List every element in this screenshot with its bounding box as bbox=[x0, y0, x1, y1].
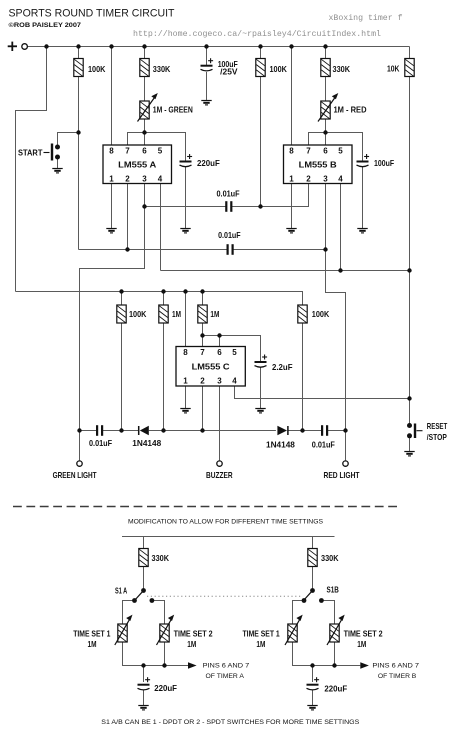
capacitor 220uF mod A bbox=[138, 677, 178, 693]
svg-text:PINS 6 AND 7: PINS 6 AND 7 bbox=[203, 662, 250, 669]
wire row2 output B to trigger A bbox=[79, 249, 228, 251]
potentiometer 1M GREEN bbox=[138, 93, 193, 122]
svg-text:1N4148: 1N4148 bbox=[132, 439, 161, 448]
svg-text:8: 8 bbox=[183, 348, 188, 357]
svg-text:SPORTS ROUND TIMER CIRCUIT: SPORTS ROUND TIMER CIRCUIT bbox=[9, 8, 176, 20]
resistor 330K A bbox=[140, 59, 149, 77]
wire pin4B bbox=[340, 184, 342, 271]
svg-text:1: 1 bbox=[183, 377, 188, 386]
svg-text:3: 3 bbox=[142, 175, 147, 184]
separator dashed line bbox=[13, 506, 401, 508]
junction light row red bbox=[343, 428, 347, 432]
svg-text:330K: 330K bbox=[152, 554, 170, 563]
wire S1B right stub bbox=[321, 601, 334, 625]
wire 330K-mod-B column bbox=[312, 537, 314, 549]
wire pin2C bbox=[202, 386, 204, 431]
svg-text:TIME SET 1: TIME SET 1 bbox=[243, 630, 281, 639]
svg-text:0.01uF: 0.01uF bbox=[217, 189, 240, 198]
arrow pins timer A bbox=[188, 662, 197, 668]
junction light row 100K right bbox=[300, 428, 304, 432]
wire 220uF modA bbox=[143, 666, 145, 683]
wire 10K column bbox=[409, 47, 411, 59]
junction pot A bbox=[142, 130, 146, 134]
svg-text:0.01uF: 0.01uF bbox=[89, 439, 112, 448]
svg-text:1M: 1M bbox=[256, 640, 265, 649]
ground 220uF A bbox=[180, 229, 190, 233]
wire V+ left branch bbox=[16, 47, 47, 292]
svg-text:TIME SET 2: TIME SET 2 bbox=[344, 630, 383, 639]
lamp GREEN LIGHT bbox=[77, 461, 82, 466]
wire bottom line A bbox=[123, 642, 189, 666]
capacitor 0.01uF row1 bbox=[217, 189, 240, 212]
junction row1 100K-B bbox=[258, 204, 262, 208]
capacitor 0.01uF red bbox=[312, 425, 335, 449]
wire reset switch ground bbox=[409, 436, 411, 452]
svg-text:LM555 A: LM555 A bbox=[118, 160, 156, 169]
svg-text:3: 3 bbox=[323, 175, 328, 184]
ground 220uF mod B bbox=[307, 706, 317, 710]
junction row2 pin2A bbox=[125, 247, 129, 251]
svg-text:4: 4 bbox=[158, 175, 163, 184]
svg-text:1M: 1M bbox=[88, 640, 97, 649]
svg-text:100K: 100K bbox=[270, 65, 287, 74]
wire row3 reset bus bbox=[161, 270, 410, 272]
ground for START bbox=[52, 169, 62, 173]
wire 100K-s2 column bbox=[121, 292, 123, 306]
svg-text:6: 6 bbox=[142, 146, 147, 155]
svg-text:RED LIGHT: RED LIGHT bbox=[324, 471, 360, 480]
wire start bottom contact to ground bbox=[57, 157, 59, 169]
svg-text:2: 2 bbox=[125, 175, 130, 184]
svg-text:0.01uF: 0.01uF bbox=[312, 440, 335, 449]
svg-text:OF TIMER A: OF TIMER A bbox=[206, 673, 245, 680]
switch S1B bbox=[302, 586, 339, 603]
junction 220uF modB bbox=[310, 663, 314, 667]
wire top V+ rail bbox=[28, 46, 410, 48]
svg-text:TIME SET 1: TIME SET 1 bbox=[73, 630, 111, 639]
svg-text:http://home.cogeco.ca/~rpaisle: http://home.cogeco.ca/~rpaisley4/Circuit… bbox=[133, 29, 381, 39]
wire 330K-A chain bbox=[144, 47, 146, 59]
wire S1B left stub bbox=[293, 601, 305, 625]
potentiometer TIME SET 1 A bbox=[73, 615, 132, 649]
capacitor 2.2uF bbox=[255, 355, 293, 373]
lamp RED LIGHT bbox=[343, 461, 348, 466]
wire 330K-B chain bbox=[325, 47, 327, 59]
wire 100uF25V column bbox=[206, 47, 208, 66]
battery terminal circle bbox=[22, 44, 28, 50]
wire pin1C ground bbox=[185, 386, 187, 409]
wire pin8A column bbox=[111, 47, 113, 146]
arrow pins timer B bbox=[360, 662, 369, 668]
svg-text:GREEN LIGHT: GREEN LIGHT bbox=[53, 471, 97, 480]
junction pin7C bbox=[200, 333, 204, 337]
svg-text:4: 4 bbox=[232, 377, 237, 386]
wire pin8B column bbox=[291, 47, 293, 146]
resistor 1M section2 a bbox=[159, 305, 168, 323]
svg-text:1: 1 bbox=[289, 175, 294, 184]
svg-text:2: 2 bbox=[200, 377, 205, 386]
wire 100K-B column bbox=[260, 47, 262, 59]
svg-text:10K: 10K bbox=[387, 65, 399, 74]
resistor 100K B bbox=[256, 59, 265, 77]
svg-text:100uF: 100uF bbox=[374, 159, 394, 168]
svg-text:©ROB PAISLEY 2007: ©ROB PAISLEY 2007 bbox=[9, 21, 82, 29]
junction pot2A bottom bbox=[162, 663, 166, 667]
switch RESET/STOP bbox=[407, 422, 447, 442]
svg-text:1M - GREEN: 1M - GREEN bbox=[153, 106, 193, 115]
capacitor 100uF B bbox=[357, 154, 395, 168]
junction pin4C 10K bbox=[407, 396, 411, 400]
potentiometer TIME SET 1 B bbox=[243, 615, 303, 649]
svg-text:0.01uF: 0.01uF bbox=[218, 231, 241, 240]
svg-text:100K: 100K bbox=[129, 310, 146, 319]
svg-text:1M: 1M bbox=[187, 640, 196, 649]
svg-text:220uF: 220uF bbox=[154, 684, 177, 693]
wire pin2A bbox=[127, 184, 129, 250]
wire pin1B ground bbox=[291, 184, 293, 229]
svg-text:/25V: /25V bbox=[220, 68, 238, 77]
buzzer terminal bbox=[217, 461, 222, 466]
svg-text:LM555 B: LM555 B bbox=[299, 160, 337, 169]
svg-text:1M: 1M bbox=[357, 640, 366, 649]
op-amp U1 LM555 A bbox=[103, 145, 172, 184]
svg-text:LM555 C: LM555 C bbox=[192, 363, 230, 372]
svg-text:7: 7 bbox=[306, 146, 311, 155]
wire light row bbox=[80, 430, 98, 432]
battery plus terminal bbox=[8, 42, 17, 51]
svg-text:OF TIMER B: OF TIMER B bbox=[378, 673, 416, 680]
potentiometer TIME SET 2 B bbox=[327, 615, 383, 649]
svg-text:xBoxing timer f: xBoxing timer f bbox=[329, 13, 403, 23]
wire 100K-right column bbox=[302, 323, 304, 431]
ground 220uF mod A bbox=[138, 706, 148, 710]
resistor 330K mod B bbox=[308, 549, 317, 567]
resistor 100K A bbox=[74, 59, 83, 77]
resistor 100K section2 right bbox=[298, 305, 307, 323]
op-amp U3 LM555 C bbox=[176, 347, 245, 387]
svg-text:220uF: 220uF bbox=[324, 685, 347, 694]
ground pin1B bbox=[286, 229, 296, 233]
junction start bbox=[76, 130, 80, 134]
svg-text:RESET: RESET bbox=[427, 422, 448, 431]
wire row1 output A to trigger B bbox=[145, 206, 227, 208]
svg-text:S1 A: S1 A bbox=[115, 587, 127, 596]
capacitor 220uF mod B bbox=[307, 677, 348, 693]
junction pot2B bottom bbox=[332, 663, 336, 667]
junction row3 pin4B bbox=[338, 268, 342, 272]
wire 1M-s2b column bbox=[202, 292, 204, 306]
capacitor 0.01uF row2 bbox=[218, 231, 241, 255]
wire 220uF-A ground bbox=[185, 167, 187, 229]
resistor 330K mod A bbox=[139, 549, 148, 567]
diode D2 1N4148 right bbox=[266, 426, 295, 450]
wire pin3B red column bbox=[326, 184, 346, 461]
svg-text:100K: 100K bbox=[312, 310, 329, 319]
svg-text:2.2uF: 2.2uF bbox=[272, 363, 293, 372]
junction pot B bbox=[323, 130, 327, 134]
svg-text:3: 3 bbox=[217, 377, 222, 386]
svg-text:5: 5 bbox=[338, 146, 343, 155]
svg-text:1M: 1M bbox=[210, 310, 219, 319]
wire pin3C buzzer bbox=[219, 386, 221, 460]
resistor 10K bbox=[405, 59, 414, 77]
svg-text:7: 7 bbox=[125, 146, 130, 155]
wire 100uF-B ground bbox=[362, 167, 364, 229]
wire 330K-mod-A column bbox=[143, 537, 145, 549]
svg-text:5: 5 bbox=[158, 146, 163, 155]
resistor 1M section2 b bbox=[198, 305, 207, 323]
junction rail2 100K bbox=[119, 289, 123, 293]
svg-text:8: 8 bbox=[289, 146, 294, 155]
svg-text:S1 A/B CAN BE 1 - DPDT OR 2 -: S1 A/B CAN BE 1 - DPDT OR 2 - SPDT SWITC… bbox=[101, 719, 359, 726]
wire section2 V+ rail bbox=[16, 292, 303, 306]
ground 2.2uF bbox=[255, 409, 265, 413]
capacitor 100uF/25V bbox=[201, 58, 239, 77]
potentiometer TIME SET 2 A bbox=[157, 615, 213, 649]
ground for 100uF/25V bbox=[201, 101, 211, 105]
wire bottom line B bbox=[293, 642, 361, 666]
wire S1A right stub bbox=[152, 601, 165, 625]
svg-text:2: 2 bbox=[306, 175, 311, 184]
svg-text:1: 1 bbox=[109, 175, 114, 184]
svg-text:330K: 330K bbox=[153, 65, 171, 74]
junction light row 100K bbox=[119, 428, 123, 432]
junction row3 10K bbox=[407, 268, 411, 272]
svg-text:6: 6 bbox=[323, 146, 328, 155]
wire pin4C reset bbox=[235, 386, 410, 399]
junction light row green bbox=[77, 428, 81, 432]
wire pin6-7C link bbox=[219, 336, 221, 347]
svg-text:1M - RED: 1M - RED bbox=[334, 106, 367, 115]
svg-text:4: 4 bbox=[338, 175, 343, 184]
resistor 330K B bbox=[321, 59, 330, 77]
svg-text:/STOP: /STOP bbox=[427, 433, 447, 442]
junction rail2 1Ma bbox=[161, 289, 165, 293]
potentiometer 1M RED bbox=[318, 93, 367, 122]
wire pin6-7A link bbox=[128, 133, 186, 162]
junction dots top rail bbox=[44, 44, 327, 48]
svg-text:8: 8 bbox=[109, 146, 114, 155]
wire 1M-s2a column bbox=[163, 292, 165, 306]
op-amp U2 LM555 B bbox=[284, 145, 353, 184]
svg-text:330K: 330K bbox=[333, 65, 351, 74]
svg-text:1N4148: 1N4148 bbox=[266, 440, 295, 449]
svg-text:6: 6 bbox=[217, 348, 222, 357]
svg-text:MODIFICATION TO ALLOW FOR DIFF: MODIFICATION TO ALLOW FOR DIFFERENT TIME… bbox=[128, 519, 323, 526]
diode D1 1N4148 left bbox=[132, 426, 161, 448]
wire 220uF modB bbox=[312, 666, 314, 683]
wire pin1A ground bbox=[111, 184, 113, 229]
svg-text:PINS 6 AND 7: PINS 6 AND 7 bbox=[372, 662, 419, 669]
wire green light drop bbox=[79, 431, 81, 461]
svg-text:5: 5 bbox=[232, 348, 237, 357]
ground 100uF B bbox=[357, 229, 367, 233]
ground pin1A bbox=[106, 229, 116, 233]
mechanical link dotted bbox=[147, 595, 302, 597]
wire mod rail bbox=[122, 536, 335, 538]
wire pin6-7B link bbox=[309, 133, 363, 162]
switch START bbox=[18, 144, 60, 161]
svg-text:1M: 1M bbox=[172, 310, 181, 319]
svg-text:220uF: 220uF bbox=[197, 159, 220, 168]
junction 220uF modA bbox=[141, 663, 145, 667]
wire pot2B drop bbox=[334, 642, 336, 666]
svg-text:BUZZER: BUZZER bbox=[206, 471, 233, 480]
wire 100K-A column bbox=[78, 47, 80, 59]
wire start top contact bbox=[58, 133, 79, 148]
wire S1A left stub bbox=[123, 601, 135, 625]
svg-text:START: START bbox=[18, 149, 42, 158]
svg-text:S1B: S1B bbox=[327, 586, 339, 595]
junction light row pin2C bbox=[200, 428, 204, 432]
svg-text:100K: 100K bbox=[88, 65, 105, 74]
ground RESET switch bbox=[404, 452, 414, 456]
wire pot2A drop bbox=[164, 642, 166, 666]
resistor 100K section2 left bbox=[117, 305, 126, 323]
wire pin3A to green column bbox=[80, 184, 145, 431]
capacitor 0.01uF green bbox=[89, 425, 112, 448]
junction row1 pin3A bbox=[142, 204, 146, 208]
ground pin1C bbox=[180, 409, 190, 413]
switch S1A bbox=[115, 587, 154, 603]
wire pin8C column bbox=[185, 292, 187, 347]
junction rail2 1Mb bbox=[200, 289, 204, 293]
junction pin6C bbox=[217, 333, 221, 337]
junction row2 pin3B bbox=[323, 247, 327, 251]
svg-text:TIME SET 2: TIME SET 2 bbox=[174, 630, 213, 639]
wire pin4A bbox=[160, 184, 162, 271]
junction light row 1Ma bbox=[161, 428, 165, 432]
wire 2.2uF ground bbox=[260, 368, 262, 409]
capacitor 220uF A bbox=[180, 154, 220, 168]
junction rail2 pin8C bbox=[183, 289, 187, 293]
svg-text:7: 7 bbox=[200, 348, 205, 357]
svg-text:330K: 330K bbox=[321, 554, 339, 563]
